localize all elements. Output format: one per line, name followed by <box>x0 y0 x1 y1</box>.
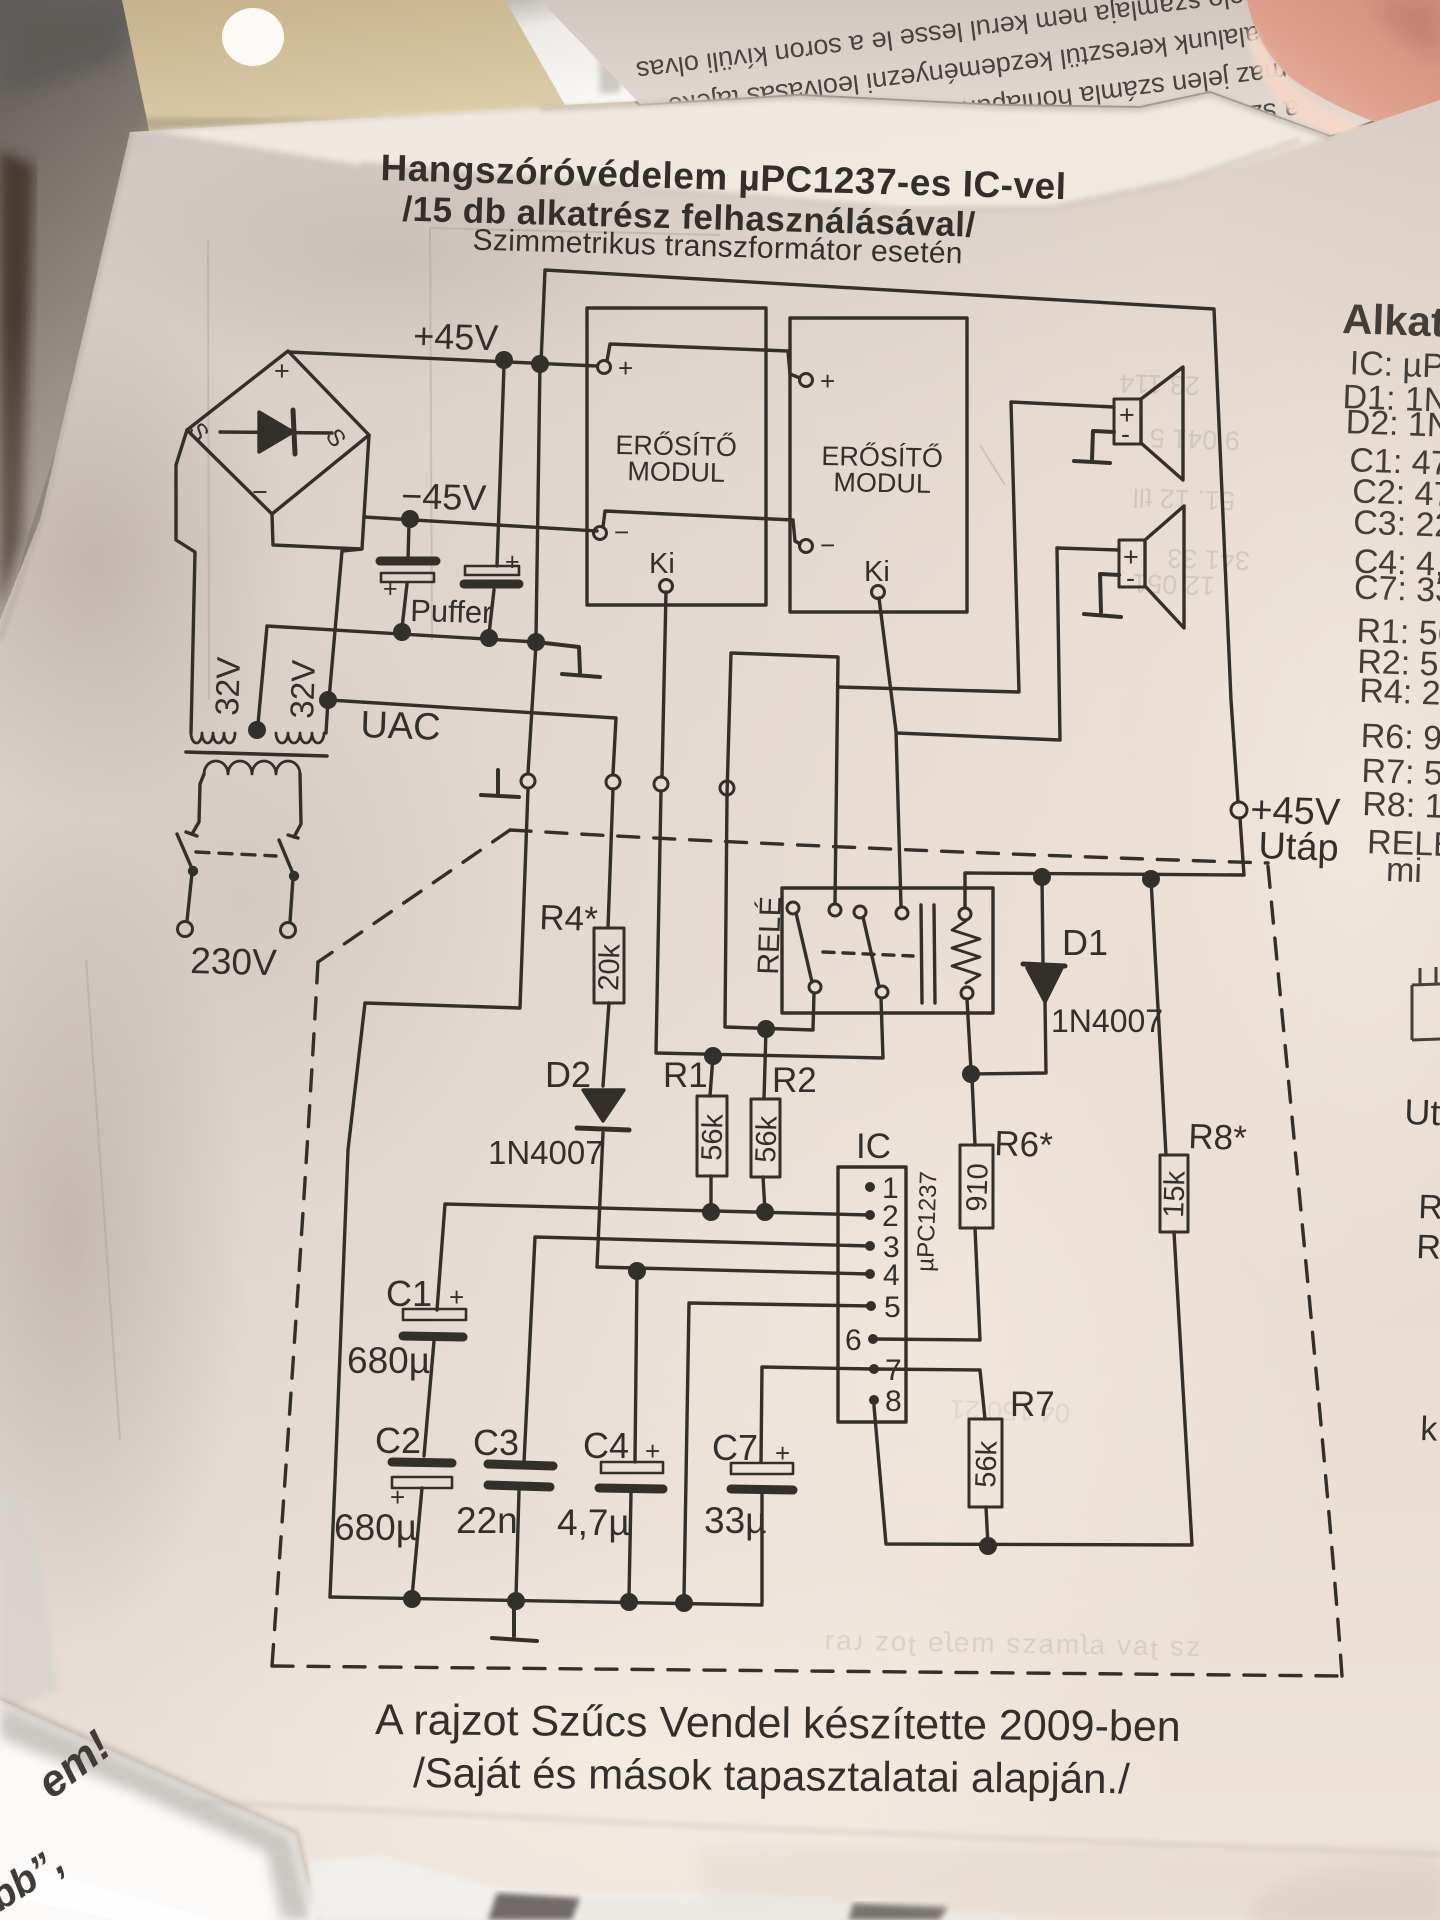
svg-text:R1: R1 <box>663 1056 708 1095</box>
svg-text:C7: 33: C7: 33 <box>1353 569 1440 610</box>
svg-text:R4: 20: R4: 20 <box>1359 672 1440 713</box>
svg-text:6: 6 <box>845 1324 862 1357</box>
svg-text:32V: 32V <box>208 656 247 716</box>
svg-text:R: R <box>1416 1228 1440 1267</box>
svg-text:/Saját és mások tapasztalatai: /Saját és mások tapasztalatai alapján./ <box>413 1749 1130 1802</box>
svg-text:56k: 56k <box>696 1113 730 1161</box>
svg-text:C2: C2 <box>375 1420 421 1461</box>
svg-text:C3: 22: C3: 22 <box>1353 503 1440 544</box>
svg-text:910: 910 <box>961 1163 995 1212</box>
svg-text:C7: C7 <box>712 1427 758 1468</box>
svg-text:IC: IC <box>856 1127 891 1166</box>
svg-text:µPC1237: µPC1237 <box>912 1171 942 1272</box>
svg-text:R: R <box>1418 1188 1440 1227</box>
svg-text:+: + <box>820 366 835 396</box>
svg-text:R8: 15: R8: 15 <box>1362 785 1440 826</box>
svg-text:Alkatré: Alkatré <box>1342 295 1440 347</box>
svg-text:2: 2 <box>882 1200 899 1233</box>
svg-text:zs ʇɐʌ ɐʅɯɐzs ɯəʅə ʇoz ɾɐɹ: zs ʇɐʌ ɐʅɯɐzs ɯəʅə ʇoz ɾɐɹ <box>823 1629 1201 1667</box>
svg-text:5: 5 <box>884 1291 901 1324</box>
svg-text:+: + <box>775 1438 790 1468</box>
svg-text:56k: 56k <box>970 1440 1004 1488</box>
svg-text:Ki: Ki <box>864 556 890 588</box>
svg-text:+45V: +45V <box>413 315 499 358</box>
svg-text:R7: R7 <box>1010 1385 1055 1424</box>
svg-text:+: + <box>383 575 398 603</box>
svg-text:Puffer: Puffer <box>410 593 493 630</box>
svg-text:+: + <box>618 353 633 383</box>
svg-text:1N4007: 1N4007 <box>1051 1003 1163 1039</box>
svg-text:9 041 5: 9 041 5 <box>1149 423 1240 456</box>
svg-text:−: − <box>820 530 835 560</box>
svg-text:R8*: R8* <box>1188 1117 1248 1158</box>
svg-text:R2: R2 <box>772 1061 817 1100</box>
svg-text:22n: 22n <box>456 1500 518 1541</box>
svg-text:20k: 20k <box>593 943 627 991</box>
svg-text:MODUL: MODUL <box>833 467 931 499</box>
svg-text:Utáp: Utáp <box>1258 825 1340 870</box>
svg-text:32V: 32V <box>283 659 322 719</box>
svg-text:R6*: R6* <box>994 1124 1054 1165</box>
svg-text:−: − <box>614 517 629 547</box>
svg-text:-: - <box>1121 419 1130 449</box>
svg-text:−: − <box>252 477 268 507</box>
svg-text:UAC: UAC <box>360 704 442 749</box>
svg-text:D2: 1N4: D2: 1N4 <box>1345 403 1440 445</box>
svg-text:−45V: −45V <box>401 475 487 518</box>
svg-text:D1: D1 <box>1062 922 1108 963</box>
svg-text:MODUL: MODUL <box>627 456 725 488</box>
svg-text:C3: C3 <box>473 1422 519 1463</box>
svg-text:8: 8 <box>885 1385 902 1418</box>
svg-text:230V: 230V <box>190 940 278 983</box>
svg-text:C1: C1 <box>386 1273 432 1314</box>
svg-text:+: + <box>274 356 290 386</box>
svg-text:D2: D2 <box>545 1054 591 1095</box>
svg-text:56k: 56k <box>750 1115 784 1163</box>
svg-text:7: 7 <box>885 1354 902 1387</box>
svg-text:mi: mi <box>1385 851 1422 890</box>
svg-text:A rajzot Szűcs Vendel készíte: A rajzot Szűcs Vendel készítette 2009-be… <box>375 1696 1181 1751</box>
svg-text:+: + <box>645 1436 660 1466</box>
svg-text:k: k <box>1420 1410 1439 1449</box>
svg-text:680µ: 680µ <box>334 1507 417 1548</box>
svg-text:+: + <box>449 1282 464 1312</box>
svg-text:Ut: Ut <box>1404 1091 1440 1133</box>
svg-text:RELÉ: RELÉ <box>752 896 788 975</box>
svg-text:C4: C4 <box>583 1425 629 1466</box>
svg-text:15k: 15k <box>1158 1170 1192 1218</box>
svg-text:4: 4 <box>883 1259 900 1292</box>
svg-text:Ki: Ki <box>649 548 675 580</box>
svg-text:680µ: 680µ <box>347 1340 430 1381</box>
svg-text:+: + <box>505 548 520 576</box>
svg-text:33µ: 33µ <box>704 1500 766 1541</box>
svg-text:-: - <box>1126 563 1135 593</box>
svg-text:1N4007: 1N4007 <box>488 1134 604 1171</box>
svg-text:R4*: R4* <box>539 898 599 939</box>
svg-text:4,7µ: 4,7µ <box>557 1502 630 1543</box>
